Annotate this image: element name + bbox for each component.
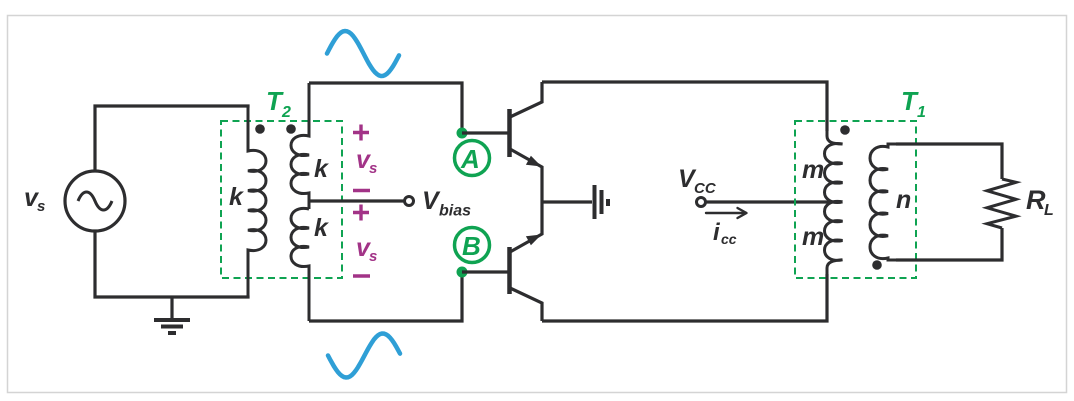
arrow Q2 emitter: [526, 235, 542, 246]
terminal VCC: [697, 198, 706, 207]
svg-text:k: k: [229, 183, 244, 211]
wire bottom rail right: [542, 274, 827, 321]
voltage source vs: [65, 171, 125, 231]
arrow Q1 emitter: [526, 156, 542, 167]
wire node B to base Q2: [462, 270, 508, 273]
wire top rail right: [542, 82, 827, 131]
node B dot: [457, 267, 468, 278]
wire source bottom: [95, 231, 248, 297]
purple minus upper: [353, 189, 370, 192]
svg-text:B: B: [462, 231, 481, 261]
resistor RL: [987, 179, 1016, 228]
polarity dot T2 primary: [255, 124, 265, 134]
wire load loop bottom: [896, 228, 1002, 260]
purple minus lower: [353, 274, 370, 277]
svg-text:m: m: [802, 156, 824, 184]
svg-text:1: 1: [917, 104, 926, 121]
purple plus lower: [353, 205, 369, 221]
node B circle label: [455, 228, 490, 263]
label RL: [1026, 185, 1054, 219]
wire top rail to node A: [309, 83, 462, 133]
svg-text:m: m: [802, 223, 824, 251]
T1 primary winding m upper: [825, 82, 843, 202]
svg-text:bias: bias: [439, 203, 471, 220]
transistor Q2: [510, 202, 543, 321]
wire source top: [95, 106, 248, 171]
svg-text:2: 2: [281, 104, 291, 121]
wire bottom rail to node B: [309, 272, 462, 321]
svg-text:n: n: [896, 186, 911, 214]
T2 secondary winding upper k: [291, 83, 309, 209]
label T2: [266, 86, 291, 121]
transistor Q1: [510, 82, 543, 202]
T1 secondary winding n: [870, 144, 896, 260]
svg-text:R: R: [1026, 185, 1046, 215]
transformer T1 dashed box: [795, 121, 916, 278]
svg-text:k: k: [314, 214, 329, 242]
wire emitters to ground: [542, 200, 592, 203]
ground right-facing: [595, 185, 609, 219]
purple plus upper: [353, 125, 369, 141]
node A circle label: [455, 141, 490, 176]
T2 primary winding k: [248, 106, 266, 297]
svg-text:s: s: [37, 198, 45, 215]
wire VCC to T1 center tap: [706, 200, 841, 203]
svg-text:s: s: [369, 248, 377, 265]
wire node A to base Q1: [462, 131, 508, 134]
svg-text:A: A: [460, 144, 480, 174]
terminal Vbias: [405, 197, 414, 206]
svg-text:k: k: [314, 155, 329, 183]
polarity dot T1 secondary: [872, 260, 882, 270]
label icc: [713, 219, 737, 247]
ground: [154, 297, 190, 333]
arrow icc: [706, 208, 747, 218]
wire load loop top: [896, 144, 1002, 179]
polarity dot T1 primary: [840, 125, 850, 135]
purple vs lower: [356, 234, 377, 265]
polarity dot T2 secondary: [286, 124, 296, 134]
label VCC: [678, 165, 717, 197]
svg-text:s: s: [369, 160, 377, 177]
svg-text:L: L: [1044, 202, 1054, 219]
transformer T2 dashed box: [221, 121, 342, 278]
sine wave bottom: [328, 334, 400, 378]
label T1: [901, 86, 926, 121]
svg-text:i: i: [713, 219, 721, 246]
purple vs upper: [356, 146, 377, 177]
svg-text:cc: cc: [721, 231, 737, 247]
svg-text:CC: CC: [694, 180, 717, 197]
label Vbias: [422, 187, 471, 220]
label vs: [24, 184, 45, 215]
T1 primary winding m lower: [825, 201, 843, 321]
node A dot: [457, 128, 468, 139]
sine wave top: [327, 31, 399, 76]
T2 secondary winding lower k: [291, 208, 309, 321]
wire center tap to Vbias: [309, 199, 404, 202]
